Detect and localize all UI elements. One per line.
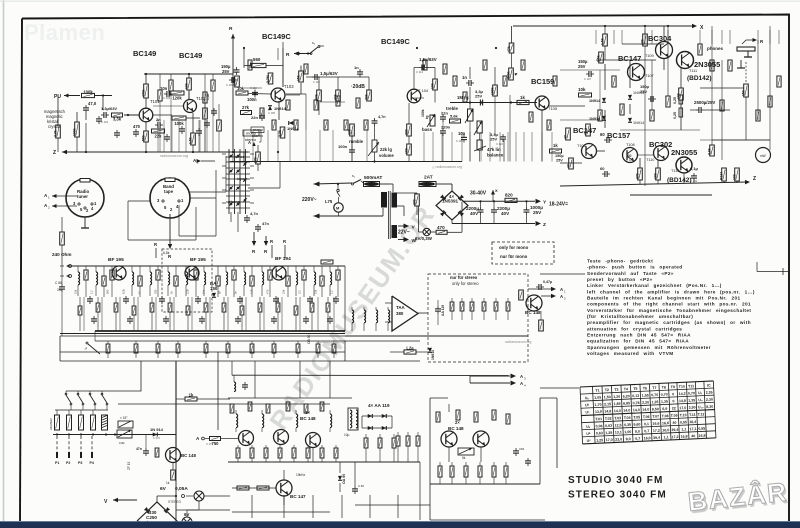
IF vertical wire (119, 297, 121, 331)
svg-text:BC 148: BC 148 (181, 453, 196, 458)
dec out element (365, 434, 367, 438)
svg-text:40: 40 (672, 421, 676, 425)
svg-text:preset by button «P2»: preset by button «P2» (587, 277, 653, 282)
IF vertical wire (227, 297, 229, 331)
svg-text:22n: 22n (251, 115, 258, 120)
resistor 100k fb (172, 116, 186, 120)
svg-text:3,9k: 3,9k (707, 148, 711, 155)
wire drop s2 (289, 130, 291, 162)
svg-text:1N914: 1N914 (633, 121, 644, 125)
bus out right (344, 266, 346, 331)
svg-text:560: 560 (106, 289, 110, 294)
det coil (387, 307, 389, 310)
DIN socket band tape (150, 178, 190, 218)
diode AA119 (382, 426, 387, 430)
det coil (351, 307, 353, 310)
IF lower element (79, 297, 81, 306)
svg-text:17,0: 17,0 (606, 438, 613, 442)
svg-text:C 126: C 126 (626, 158, 634, 162)
svg-text:T.02: T.02 (605, 417, 612, 421)
IF capacitor (273, 298, 279, 300)
bridge lower rail (452, 223, 535, 225)
resistor 750 (210, 437, 221, 441)
svg-text:L75: L75 (325, 199, 333, 204)
transistor T102 (184, 100, 197, 113)
wire T103 base (248, 93, 272, 96)
svg-text:T1: T1 (595, 389, 599, 393)
coil transformer dec (348, 408, 358, 430)
dashed drop (80, 436, 82, 455)
resistor 3,3k (112, 113, 123, 117)
lower component (157, 341, 159, 344)
wire drop s2 (277, 130, 279, 162)
svg-text:1,20: 1,20 (613, 395, 620, 399)
cap 100n (252, 91, 258, 93)
svg-text:AM-BER: AM-BER (49, 417, 53, 430)
svg-text:0,55: 0,55 (698, 427, 705, 431)
resistor 3,3k s2 (280, 127, 285, 138)
pilot wires (232, 487, 276, 489)
svg-text:L2a: L2a (406, 345, 414, 350)
bus top y26 (513, 25, 693, 27)
IF capacitor (159, 298, 165, 300)
svg-text:0,7: 0,7 (635, 437, 640, 441)
svg-text:T7: T7 (652, 386, 656, 390)
svg-text:Bauteile im rechten Kanal be: Bauteile im rechten Kanal beginnen mit P… (587, 296, 741, 301)
svg-text:Z: Z (753, 176, 756, 182)
svg-text:Spannungen gemessen mit Röh: Spannungen gemessen mit Röhrenvoltmeter (587, 345, 711, 350)
svg-text:6,20: 6,20 (623, 394, 630, 398)
diode 1N914 b (289, 121, 294, 125)
svg-text:33k: 33k (333, 94, 337, 100)
svg-text:22k lg: 22k lg (380, 147, 392, 152)
lower component (333, 341, 335, 344)
second lower rail (630, 194, 712, 196)
svg-text:2,7M: 2,7M (266, 75, 270, 83)
wire drop tone (551, 132, 553, 162)
transistor T103 (271, 88, 285, 102)
bank bottom bus (53, 434, 176, 436)
wire R101 to node (95, 95, 112, 97)
det coil (363, 307, 365, 310)
trimmer A151 (118, 421, 133, 428)
svg-text:T10: T10 (679, 385, 685, 389)
svg-text:23,0: 23,0 (615, 437, 622, 441)
svg-text:T103: T103 (284, 84, 294, 89)
mid horizontal rails out (560, 69, 620, 71)
out lower element (479, 462, 481, 466)
det bottom bus (345, 335, 528, 337)
out caps right (513, 450, 519, 452)
svg-text:components of the right cha: components of the right channel start wi… (587, 302, 751, 307)
svg-text:T111: T111 (689, 69, 697, 73)
transistor T104 (407, 89, 421, 103)
IF lower element (277, 297, 279, 303)
svg-text:1N914: 1N914 (431, 350, 435, 360)
svg-text:270: 270 (412, 199, 416, 205)
svg-text:A: A (248, 140, 251, 145)
svg-text:10k: 10k (578, 87, 586, 92)
svg-text:270k: 270k (232, 78, 236, 86)
IF coil (243, 266, 245, 272)
preamp mid extra a (203, 108, 208, 119)
svg-text:12,5: 12,5 (614, 423, 621, 427)
svg-text:(BD142): (BD142) (687, 75, 712, 82)
svg-text:BF 195: BF 195 (190, 257, 206, 263)
svg-text:1,2: 1,2 (90, 290, 94, 294)
dec right element (397, 432, 399, 436)
resistor 270 sel (256, 152, 261, 164)
IF vertical wire (137, 297, 139, 331)
resistor emitter 0,25 (679, 95, 683, 104)
svg-text:2,35: 2,35 (706, 390, 713, 394)
svg-text:4,7n: 4,7n (378, 115, 386, 119)
svg-text:AA 119: AA 119 (441, 305, 445, 316)
det element (471, 298, 473, 302)
phones jack (737, 47, 755, 51)
svg-text:1N914: 1N914 (589, 99, 601, 103)
svg-text:220n: 220n (441, 125, 451, 130)
wire drop tone (461, 132, 463, 162)
decoder top element (304, 404, 308, 413)
svg-text:1,5µ/63V: 1,5µ/63V (320, 71, 338, 76)
IF coil (167, 266, 169, 272)
extra element out (728, 60, 732, 71)
dashed box only for mono (492, 242, 554, 264)
svg-text:OA 90: OA 90 (307, 334, 311, 344)
svg-text:Z: Z (53, 150, 56, 156)
resistor 120k (170, 91, 184, 95)
svg-text:380: 380 (396, 311, 404, 316)
svg-text:47: 47 (563, 135, 567, 139)
dec connect wires (283, 496, 285, 505)
svg-text:T4: T4 (624, 387, 628, 391)
svg-text:47n: 47n (262, 221, 269, 226)
svg-text:only for stereo: only for stereo (452, 281, 479, 286)
jack stem (740, 60, 742, 68)
extra cap (179, 128, 185, 130)
wire emitter T102 (192, 113, 194, 133)
arrow X top (692, 24, 697, 29)
bridge rectifier 4x 1N5391 (436, 191, 468, 220)
svg-text:22k: 22k (155, 134, 163, 139)
svg-text:6,85: 6,85 (623, 401, 630, 405)
svg-text:60: 60 (600, 132, 605, 137)
extra resistor (169, 80, 173, 91)
wire emitter T101 (145, 122, 147, 131)
IF vertical wire (155, 297, 157, 331)
svg-text:T.07: T.07 (652, 414, 659, 418)
svg-text:22k: 22k (364, 94, 368, 100)
svg-text:mW: mW (760, 154, 766, 158)
svg-text:17,0: 17,0 (679, 406, 686, 410)
meter circle (756, 148, 771, 163)
afc components (143, 450, 149, 452)
svg-text:(für Kristalltonabnehmer ums: (für Kristalltonabnehmer umschaltbar) (587, 314, 693, 319)
transistor T106 (582, 144, 597, 159)
wire right of text block (757, 271, 789, 273)
svg-text:Teste -phono- gedrückt: Teste -phono- gedrückt (587, 259, 653, 264)
resistor 0180 100 (679, 88, 684, 100)
wire switch bank top (55, 409, 108, 411)
svg-text:47: 47 (566, 164, 570, 168)
svg-text:0,06: 0,06 (595, 424, 602, 428)
wire drop out (711, 30, 713, 44)
IF vertical wire (191, 297, 193, 331)
wire to T101 base (124, 114, 139, 116)
transistor BC148 det (526, 295, 542, 311)
mono stereo labels (243, 130, 259, 136)
decoder transistor a (239, 431, 254, 446)
wire bottom bus (176, 509, 230, 511)
wire drop s2 (243, 130, 245, 162)
svg-text:22: 22 (672, 406, 676, 410)
wire left bias (57, 115, 59, 125)
svg-text:0,1: 0,1 (644, 422, 649, 426)
svg-text:100: 100 (732, 174, 736, 180)
BAZAR logo watermark (686, 476, 791, 519)
svg-text:19kHz: 19kHz (296, 473, 305, 477)
svg-text:R: R (286, 52, 290, 58)
svg-text:Entzerrung nach DIN 45 547=: Entzerrung nach DIN 45 547= RIAA (587, 333, 691, 338)
svg-text:100: 100 (653, 173, 657, 179)
lower component (297, 341, 299, 344)
transistor BF194 (272, 266, 286, 280)
svg-text:T110: T110 (646, 158, 654, 162)
svg-text:14,0: 14,0 (614, 409, 621, 413)
transistor BF195 b (185, 266, 199, 280)
svg-text:C 101: C 101 (101, 120, 109, 124)
svg-text:1,5k: 1,5k (600, 38, 604, 45)
svg-text:1k: 1k (166, 481, 170, 485)
sel wire right (248, 187, 280, 189)
wire drop tone (451, 132, 453, 162)
svg-text:nur für mono: nur für mono (500, 254, 528, 259)
svg-text:voltages measured with VTVM: voltages measured with VTVM (587, 351, 674, 356)
svg-text:T5: T5 (633, 387, 637, 391)
decoder coil (235, 410, 237, 414)
wire drop (199, 120, 201, 152)
decoder lower element (335, 445, 337, 448)
resistor 1,5k (191, 133, 196, 145)
wire left of text block (540, 273, 585, 275)
out top element (436, 412, 440, 422)
svg-text:X: X (495, 188, 498, 193)
svg-text:bass: bass (422, 127, 433, 132)
svg-text:balance: balance (487, 153, 504, 158)
svg-text:560: 560 (141, 135, 145, 141)
R arrows down (252, 241, 257, 246)
dec out element (393, 434, 395, 438)
wire T102 collector up (188, 92, 190, 99)
svg-text:tuner: tuner (77, 194, 88, 199)
DIN radio ground (84, 217, 86, 228)
mid wire tone (450, 102, 537, 104)
svg-text:left channel of the amplifie: left channel of the amplifier is drawn h… (587, 289, 755, 294)
svg-text:2,2k: 2,2k (186, 288, 190, 294)
svg-text:attenuation for crystal car: attenuation for crystal cartridges (587, 326, 682, 331)
wire drop s2 (305, 130, 307, 162)
IF bottom bus 1 (95, 330, 345, 332)
svg-text:T109: T109 (645, 54, 654, 58)
antenna input terminals (69, 265, 72, 268)
diode AA119 (368, 414, 373, 418)
lower component (135, 341, 137, 344)
svg-text:1,70: 1,70 (594, 403, 601, 407)
switch AM bottom (88, 344, 100, 354)
IF resistor (103, 266, 105, 276)
svg-text:47k lin: 47k lin (487, 147, 501, 152)
wire to table (540, 387, 579, 389)
volume pot 22k lg (372, 140, 377, 152)
wire drop s2 (267, 130, 269, 162)
svg-text:T.06: T.06 (643, 415, 650, 419)
svg-text:8,0: 8,0 (626, 437, 631, 441)
det element (461, 298, 463, 302)
svg-text:18-24V=: 18-24V= (549, 201, 568, 207)
extra resistor (203, 92, 207, 103)
svg-text:27k: 27k (242, 105, 250, 110)
resistor 560 (144, 131, 149, 142)
wire drop tone (507, 132, 509, 162)
resistor 270k (235, 76, 240, 87)
small L10 coil (234, 382, 236, 392)
arrows A1 A2 det (551, 287, 556, 292)
extra cap (204, 122, 210, 124)
svg-text:BC 148: BC 148 (300, 416, 316, 421)
right amp box (429, 398, 431, 520)
wire drop (178, 120, 180, 152)
diode 1N914 drv3 (628, 95, 632, 100)
dec out element (379, 434, 381, 438)
transistor BF195 a (112, 266, 126, 280)
svg-text:40V: 40V (501, 211, 510, 216)
wire drop tone (531, 132, 533, 162)
IF vertical wire (263, 297, 265, 331)
svg-text:25V: 25V (640, 89, 647, 94)
transformer wires (391, 183, 393, 185)
svg-text:100k: 100k (83, 89, 93, 94)
pot 1M lg vert (468, 109, 474, 121)
svg-text:P2: P2 (66, 461, 70, 465)
IF coil (313, 266, 315, 272)
svg-text:-phono- push button is operat: -phono- push button is operated (587, 265, 683, 270)
wire drop tone (541, 132, 543, 162)
svg-text:0: 0 (672, 399, 674, 403)
extra element s2 (272, 120, 276, 130)
IF lower element (327, 297, 329, 303)
bank resistor (68, 410, 70, 415)
pot bass vert (477, 121, 482, 133)
diode 1N914 bank (153, 433, 158, 437)
svg-text:C 88: C 88 (55, 281, 62, 285)
stage2 resistor 33k (336, 90, 341, 101)
IF resistor (303, 266, 305, 270)
extra resistor (158, 90, 162, 101)
out lower wires (597, 150, 605, 152)
svg-text:T9: T9 (671, 385, 675, 389)
svg-text:Sendervorwahl auf Taste «P2»: Sendervorwahl auf Taste «P2» (587, 271, 674, 276)
wire drop to decoder (329, 361, 331, 398)
extra element out (720, 100, 724, 111)
long wire to A3A4 (232, 374, 510, 376)
svg-text:BC149C: BC149C (262, 32, 291, 41)
transformer secondary bar (392, 193, 398, 208)
svg-text:0,70: 0,70 (661, 393, 668, 397)
out lower element (465, 462, 467, 466)
wire T105 collector (549, 105, 585, 107)
svg-text:1,35: 1,35 (688, 398, 695, 402)
decoder drop wire (283, 495, 285, 518)
lamp stereo ind (194, 491, 204, 501)
svg-text:14,2: 14,2 (679, 392, 686, 396)
svg-text:0,7: 0,7 (644, 429, 649, 433)
wire tone top (427, 67, 435, 69)
svg-text:820: 820 (505, 193, 513, 198)
IF coil (149, 266, 151, 272)
svg-text:39,4: 39,4 (653, 436, 660, 440)
svg-text:radiomuseum.org: radiomuseum.org (316, 340, 344, 344)
bus Z preamp bottom (62, 151, 248, 153)
svg-text:0: 0 (672, 392, 674, 396)
voltage table (580, 381, 716, 444)
svg-text:47,0: 47,0 (88, 101, 97, 106)
svg-text:47k: 47k (507, 46, 511, 52)
svg-text:2,20: 2,20 (642, 400, 649, 404)
extra element out (777, 76, 781, 87)
svg-text:P1: P1 (55, 461, 59, 465)
svg-text:40: 40 (691, 434, 695, 438)
resistor 150 jack (744, 84, 749, 97)
svg-text:T.10: T.10 (680, 413, 687, 417)
decoder top element (248, 402, 252, 411)
resistor 3,9k (710, 145, 715, 156)
IF coil (261, 266, 263, 272)
IF coil (95, 266, 97, 272)
extra element tone (529, 112, 533, 122)
svg-text:1,55: 1,55 (642, 393, 649, 397)
svg-text:mono: mono (253, 127, 264, 132)
svg-text:1,5µ/63V: 1,5µ/63V (419, 57, 437, 62)
svg-text:100k: 100k (490, 87, 494, 95)
svg-text:16,4: 16,4 (689, 420, 696, 424)
IF lower element (205, 297, 207, 303)
svg-text:BC159: BC159 (531, 77, 554, 86)
decoder lower element (307, 445, 309, 448)
svg-text:150: 150 (210, 286, 218, 291)
selector outer stubs (222, 153, 226, 155)
extra element tone (521, 60, 525, 70)
extra element s2 (344, 120, 348, 130)
svg-text:1,35: 1,35 (651, 400, 658, 404)
arrow Y 18-24V (536, 199, 542, 204)
out top element (474, 412, 478, 422)
svg-text:560: 560 (253, 57, 261, 62)
svg-text:470: 470 (437, 225, 445, 230)
svg-text:R: R (229, 26, 233, 32)
svg-text:470: 470 (266, 289, 270, 294)
IF lower element (151, 297, 153, 303)
switch contact (78, 395, 83, 403)
transistor T111 (677, 52, 694, 69)
svg-text:· · ·· ··· · ··: · · ·· ··· · ·· (28, 22, 52, 28)
extra element out (710, 60, 714, 71)
svg-text:T 104: T 104 (418, 88, 429, 93)
svg-text:22k: 22k (282, 289, 286, 294)
svg-text:only for mono: only for mono (499, 245, 529, 250)
wire left drop (59, 336, 61, 361)
IF lower element (97, 297, 99, 303)
